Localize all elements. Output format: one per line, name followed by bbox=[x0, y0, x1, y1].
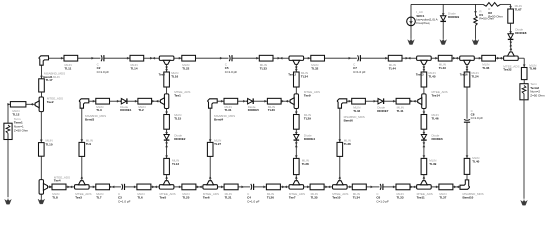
svg-text:Tee3: Tee3 bbox=[75, 196, 82, 200]
svg-text:Tee14: Tee14 bbox=[432, 93, 441, 97]
svg-text:TL10: TL10 bbox=[46, 142, 53, 146]
svg-text:C=1.0 pF: C=1.0 pF bbox=[353, 70, 366, 74]
svg-text:TL8: TL8 bbox=[52, 196, 58, 200]
svg-text:DIODE9: DIODE9 bbox=[448, 15, 460, 19]
svg-text:C=1.0 pF: C=1.0 pF bbox=[471, 116, 484, 120]
svg-text:MLIN: MLIN bbox=[53, 75, 60, 79]
svg-text:TL43: TL43 bbox=[439, 66, 446, 70]
svg-text:TL6: TL6 bbox=[137, 196, 143, 200]
svg-text:TL31: TL31 bbox=[225, 108, 232, 112]
svg-text:Z=50 Ohm: Z=50 Ohm bbox=[14, 128, 29, 132]
svg-text:Tee11: Tee11 bbox=[417, 196, 425, 200]
svg-text:C=1.0 pF: C=1.0 pF bbox=[376, 199, 389, 203]
svg-text:TL24: TL24 bbox=[472, 74, 479, 78]
svg-text:Tee9: Tee9 bbox=[304, 93, 311, 97]
svg-text:TL33: TL33 bbox=[397, 196, 404, 200]
svg-text:Tee7: Tee7 bbox=[289, 196, 296, 200]
svg-text:Tee16: Tee16 bbox=[460, 73, 468, 77]
svg-text:TL16: TL16 bbox=[171, 74, 178, 78]
svg-text:TL11: TL11 bbox=[65, 66, 72, 70]
svg-text:TL28: TL28 bbox=[302, 162, 309, 166]
svg-text:TL67: TL67 bbox=[515, 8, 522, 12]
svg-text:Tee10: Tee10 bbox=[332, 196, 341, 200]
svg-text:TL15: TL15 bbox=[174, 117, 181, 121]
svg-text:TL14: TL14 bbox=[131, 66, 138, 70]
svg-text:Tee1: Tee1 bbox=[174, 93, 181, 97]
svg-text:TL42: TL42 bbox=[353, 109, 360, 113]
svg-text:TL33: TL33 bbox=[260, 66, 267, 70]
svg-text:C=1.0 pF: C=1.0 pF bbox=[118, 199, 131, 203]
svg-text:TL36: TL36 bbox=[482, 66, 489, 70]
svg-text:TL38: TL38 bbox=[344, 142, 351, 146]
svg-text:Tee13: Tee13 bbox=[416, 73, 424, 77]
svg-text:Bend6: Bend6 bbox=[344, 118, 354, 122]
svg-text:TL17: TL17 bbox=[46, 78, 53, 82]
svg-text:Bend4: Bend4 bbox=[214, 118, 224, 122]
svg-text:Tee32: Tee32 bbox=[503, 68, 512, 72]
svg-text:TL34: TL34 bbox=[353, 196, 360, 200]
svg-text:TL45: TL45 bbox=[429, 74, 436, 78]
svg-text:TL46: TL46 bbox=[432, 117, 439, 121]
svg-text:Z=50 Ohm: Z=50 Ohm bbox=[530, 93, 545, 97]
svg-text:TL30: TL30 bbox=[268, 108, 275, 112]
svg-text:Tee2: Tee2 bbox=[47, 100, 54, 104]
svg-text:TL32: TL32 bbox=[311, 66, 318, 70]
svg-text:TL39: TL39 bbox=[429, 162, 436, 166]
svg-text:TL40: TL40 bbox=[472, 160, 479, 164]
svg-text:C=1.0 pF: C=1.0 pF bbox=[97, 70, 110, 74]
svg-text:DIODE7: DIODE7 bbox=[377, 109, 389, 113]
svg-text:TL27: TL27 bbox=[214, 142, 221, 146]
svg-text:TL7: TL7 bbox=[96, 196, 102, 200]
svg-text:Tee12: Tee12 bbox=[288, 73, 296, 77]
svg-text:TL44: TL44 bbox=[389, 66, 396, 70]
svg-text:Bend3: Bend3 bbox=[85, 118, 95, 122]
svg-text:TL13: TL13 bbox=[172, 162, 179, 166]
svg-text:TL41: TL41 bbox=[397, 109, 404, 113]
svg-text:DIODE8: DIODE8 bbox=[515, 31, 527, 35]
svg-text:R=50 Ohm: R=50 Ohm bbox=[488, 14, 503, 18]
svg-text:TL29: TL29 bbox=[304, 117, 311, 121]
svg-text:TL21: TL21 bbox=[225, 196, 232, 200]
svg-text:Tee4: Tee4 bbox=[54, 179, 61, 183]
svg-text:DIODE5: DIODE5 bbox=[248, 108, 260, 112]
svg-text:Bend10: Bend10 bbox=[463, 196, 474, 200]
svg-text:DIODE6: DIODE6 bbox=[432, 137, 444, 141]
svg-text:DIODE2: DIODE2 bbox=[174, 137, 186, 141]
svg-text:TL25: TL25 bbox=[182, 196, 189, 200]
svg-text:TL3: TL3 bbox=[96, 108, 102, 112]
svg-text:Tee5: Tee5 bbox=[160, 196, 167, 200]
svg-text:TL26: TL26 bbox=[267, 196, 274, 200]
svg-text:Tee6: Tee6 bbox=[203, 196, 210, 200]
svg-text:TL66: TL66 bbox=[529, 67, 536, 71]
svg-text:TL22: TL22 bbox=[182, 66, 189, 70]
svg-text:TL37: TL37 bbox=[439, 196, 446, 200]
svg-text:DIODE1: DIODE1 bbox=[120, 108, 132, 112]
svg-text:TL2: TL2 bbox=[138, 108, 144, 112]
svg-text:TL35: TL35 bbox=[311, 196, 318, 200]
svg-text:Freq=freq: Freq=freq bbox=[416, 21, 429, 25]
svg-text:C=1.0 pF: C=1.0 pF bbox=[247, 199, 260, 203]
svg-text:TL9: TL9 bbox=[86, 142, 92, 146]
svg-text:C=1.0 pF: C=1.0 pF bbox=[225, 70, 238, 74]
svg-text:Tee8: Tee8 bbox=[159, 73, 166, 77]
svg-text:DIODE4: DIODE4 bbox=[304, 137, 316, 141]
svg-text:TL12: TL12 bbox=[12, 112, 19, 116]
svg-text:TL34: TL34 bbox=[301, 74, 308, 78]
